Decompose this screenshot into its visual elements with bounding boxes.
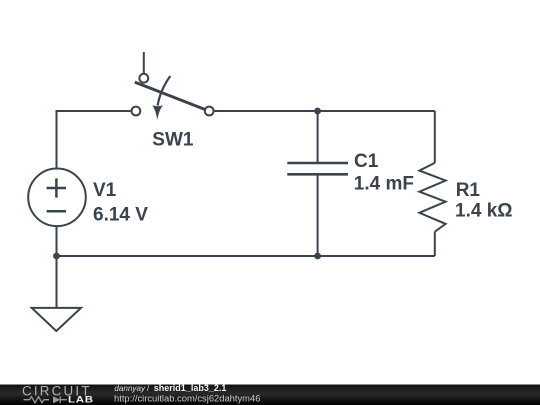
svg-text:1.4 mF: 1.4 mF [354,174,414,195]
wire bottom rail [57,255,435,257]
svg-text:LAB: LAB [68,396,94,405]
wire resistor top lead [434,111,436,163]
svg-text:http://circuitlab.com/csj62dah: http://circuitlab.com/csj62dahtym46 [114,392,260,403]
wire from V1 plus terminal up and right to switch left terminal [57,111,131,169]
svg-text:6.14 V: 6.14 V [93,204,148,225]
voltage source V1 [28,169,86,227]
svg-text:V1: V1 [93,180,117,201]
wire resistor bottom lead [434,232,436,256]
svg-text:sherid1_lab3_2.1: sherid1_lab3_2.1 [154,383,227,393]
wire from bottom rail down to ground [56,256,58,308]
footer bar [0,385,540,405]
ground [32,308,81,331]
svg-text:C1: C1 [354,151,379,172]
svg-text:R1: R1 [456,180,481,201]
switch SW1 [132,52,214,120]
node A junction top [314,108,321,115]
wire capacitor bottom lead [317,174,319,256]
wire from V1 minus terminal down to bottom rail [56,226,58,256]
wire capacitor top lead [317,111,319,163]
CircuitLab logo resistor-diode glyph [24,396,67,403]
node C junction bottom-left [53,253,60,260]
resistor R1 [419,163,445,232]
node B junction bottom [314,253,321,260]
wire from switch right terminal to top-right corner [215,110,435,112]
svg-text:1.4 kΩ: 1.4 kΩ [455,201,513,222]
capacitor C1 [287,163,348,174]
svg-text:SW1: SW1 [152,130,194,151]
